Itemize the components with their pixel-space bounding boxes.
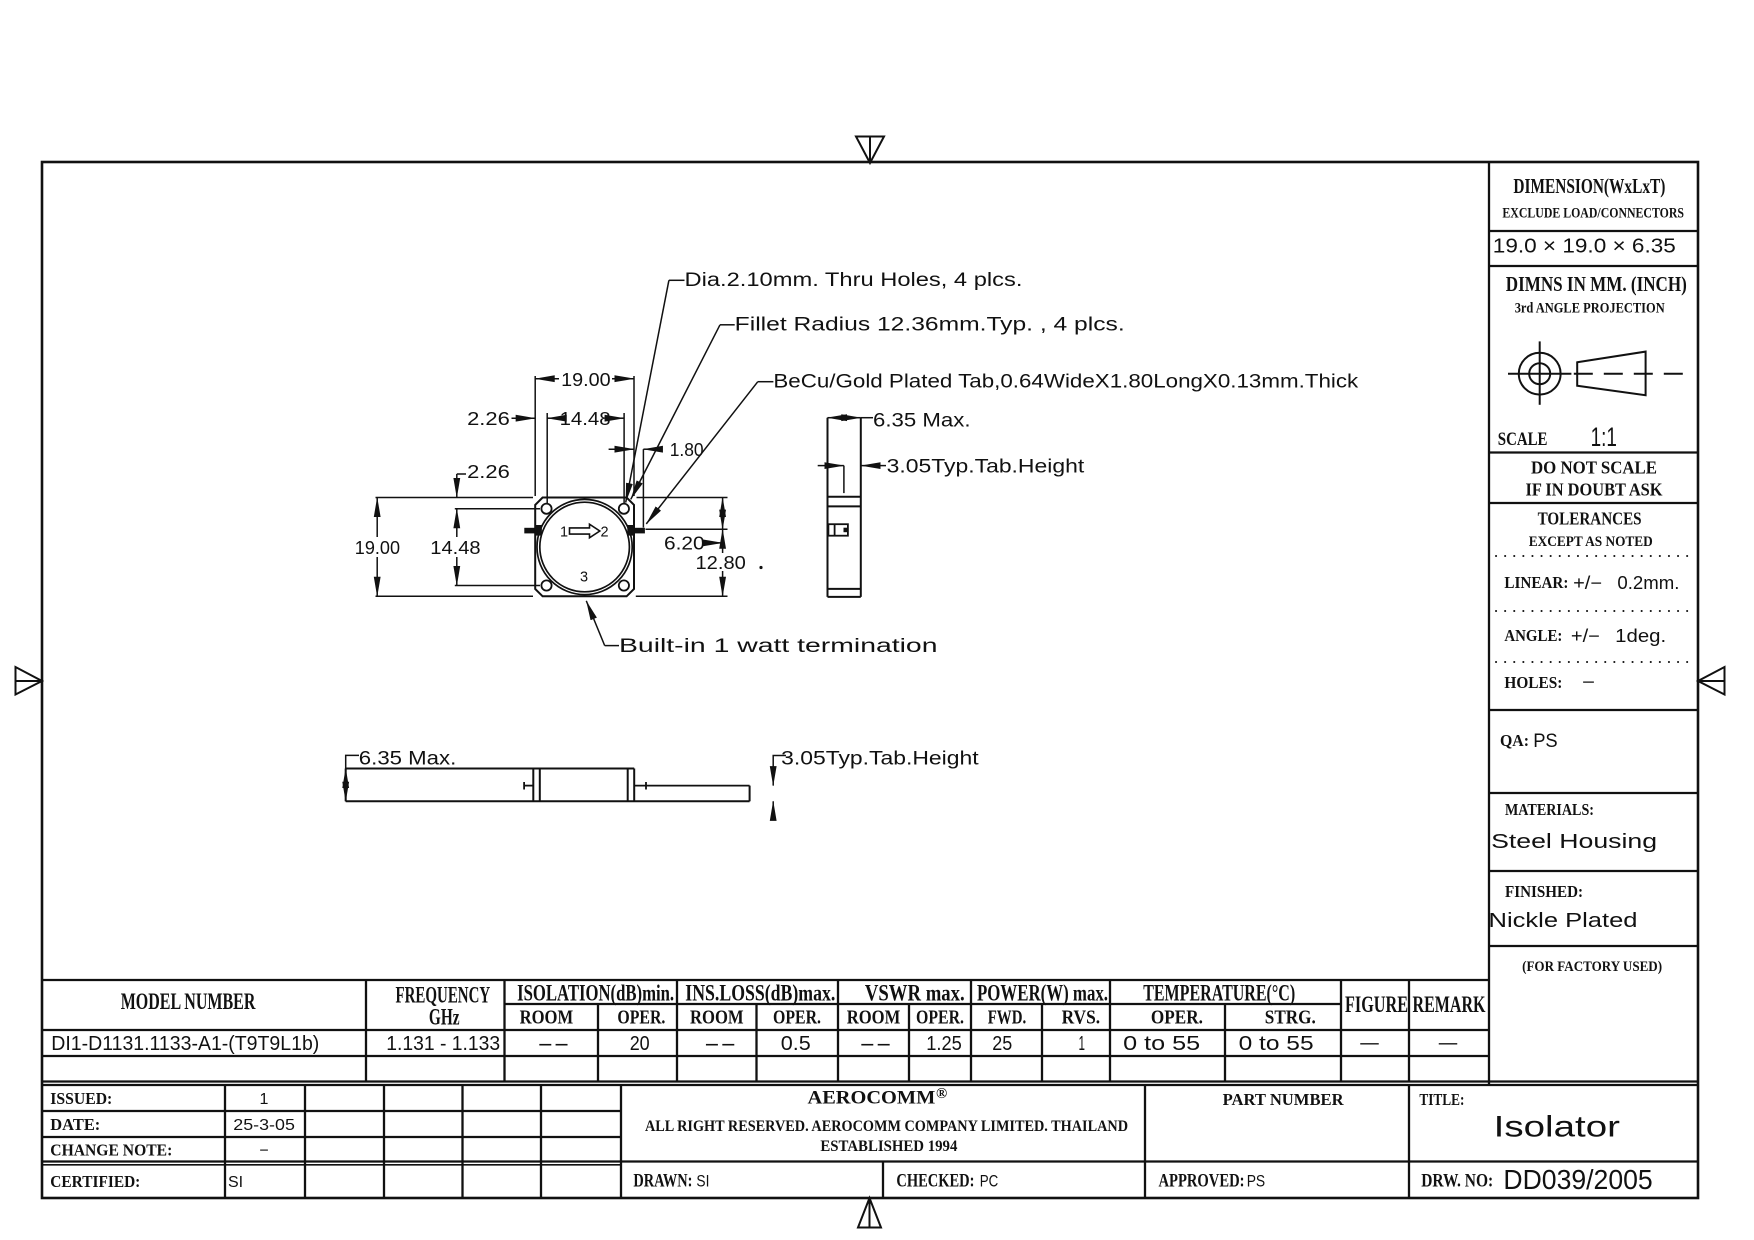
svg-text:19.00: 19.00 xyxy=(355,538,400,558)
svg-text:20: 20 xyxy=(630,1032,650,1055)
svg-text:OPER.: OPER. xyxy=(773,1008,821,1029)
svg-text:1: 1 xyxy=(1079,1032,1086,1055)
svg-text:1deg.: 1deg. xyxy=(1615,626,1666,646)
svg-text:—: — xyxy=(1360,1031,1379,1054)
svg-text:RVS.: RVS. xyxy=(1062,1008,1101,1029)
svg-text:SI: SI xyxy=(228,1174,243,1191)
svg-text:DIMENSION(WxLxT): DIMENSION(WxLxT) xyxy=(1513,174,1665,198)
svg-text:+/−: +/− xyxy=(1571,626,1600,646)
svg-text:19.0 × 19.0 × 6.35: 19.0 × 19.0 × 6.35 xyxy=(1493,236,1676,258)
svg-text:Steel Housing: Steel Housing xyxy=(1491,831,1657,853)
svg-text:OPER.: OPER. xyxy=(916,1008,964,1029)
svg-text:QA:: QA: xyxy=(1500,731,1529,750)
svg-text:Nickle Plated: Nickle Plated xyxy=(1489,910,1638,932)
svg-text:6.35 Max.: 6.35 Max. xyxy=(873,410,971,431)
svg-text:1.25: 1.25 xyxy=(926,1032,962,1055)
svg-text:TITLE:: TITLE: xyxy=(1419,1090,1464,1109)
svg-text:ROOM: ROOM xyxy=(690,1008,744,1029)
svg-text:Dia.2.10mm. Thru Holes, 4 plcs: Dia.2.10mm. Thru Holes, 4 plcs. xyxy=(685,270,1023,291)
svg-text:25: 25 xyxy=(992,1032,1012,1055)
svg-text:2.26: 2.26 xyxy=(467,462,510,482)
svg-text:(FOR FACTORY USED): (FOR FACTORY USED) xyxy=(1522,959,1662,975)
svg-text:12.80: 12.80 xyxy=(696,553,746,573)
svg-text:ISOLATION(dB)min.: ISOLATION(dB)min. xyxy=(517,981,674,1006)
svg-text:CHANGE NOTE:: CHANGE NOTE: xyxy=(50,1141,172,1160)
svg-text:Built-in 1 watt termination: Built-in 1 watt termination xyxy=(619,636,938,657)
svg-text:STRG.: STRG. xyxy=(1265,1008,1316,1029)
svg-text:0 to 55: 0 to 55 xyxy=(1239,1032,1314,1055)
svg-text:HOLES:: HOLES: xyxy=(1504,673,1562,692)
svg-text:PART NUMBER: PART NUMBER xyxy=(1223,1090,1345,1109)
svg-text:®: ® xyxy=(936,1086,947,1102)
svg-text:AEROCOMM: AEROCOMM xyxy=(808,1088,936,1109)
svg-text:DATE:: DATE: xyxy=(50,1115,100,1134)
svg-text:1:1: 1:1 xyxy=(1591,422,1617,452)
svg-text:PS: PS xyxy=(1533,731,1558,752)
svg-text:FIGURE: FIGURE xyxy=(1345,992,1408,1017)
svg-text:TOLERANCES: TOLERANCES xyxy=(1538,509,1642,529)
svg-text:TEMPERATURE(°C): TEMPERATURE(°C) xyxy=(1143,981,1295,1006)
svg-text:CHECKED:: CHECKED: xyxy=(896,1172,974,1192)
svg-text:−: − xyxy=(259,1143,268,1160)
svg-text:IF IN DOUBT ASK: IF IN DOUBT ASK xyxy=(1526,480,1663,500)
svg-text:SCALE: SCALE xyxy=(1498,429,1548,450)
svg-text:--: -- xyxy=(704,1032,737,1055)
svg-text:+/−: +/− xyxy=(1573,573,1602,593)
svg-text:3.05Typ.Tab.Height: 3.05Typ.Tab.Height xyxy=(781,749,979,770)
svg-text:1: 1 xyxy=(260,1091,269,1108)
svg-text:6.20: 6.20 xyxy=(664,534,705,554)
svg-text:0 to 55: 0 to 55 xyxy=(1123,1032,1200,1055)
svg-text:FINISHED:: FINISHED: xyxy=(1505,882,1583,901)
svg-text:ROOM: ROOM xyxy=(847,1008,901,1029)
svg-text:SI: SI xyxy=(696,1172,709,1191)
svg-text:APPROVED:: APPROVED: xyxy=(1159,1172,1245,1192)
svg-text:—: — xyxy=(1439,1031,1458,1054)
svg-text:--: -- xyxy=(537,1032,570,1055)
svg-text:14.48: 14.48 xyxy=(560,409,611,429)
svg-text:−: − xyxy=(1582,672,1595,692)
svg-text:1: 1 xyxy=(560,525,568,541)
svg-text:DI1-D1131.1133-A1-(T9T9L1b): DI1-D1131.1133-A1-(T9T9L1b) xyxy=(51,1032,319,1055)
svg-text:ESTABLISHED 1994: ESTABLISHED 1994 xyxy=(820,1138,957,1155)
svg-text:EXCEPT AS NOTED: EXCEPT AS NOTED xyxy=(1529,534,1653,550)
svg-text:GHz: GHz xyxy=(429,1005,460,1030)
svg-text:BeCu/Gold Plated Tab,0.64WideX: BeCu/Gold Plated Tab,0.64WideX1.80LongX0… xyxy=(773,372,1358,393)
svg-text:DD039/2005: DD039/2005 xyxy=(1503,1164,1652,1195)
svg-text:FWD.: FWD. xyxy=(988,1008,1027,1029)
svg-text:ANGLE:: ANGLE: xyxy=(1504,626,1562,645)
svg-text:3.05Typ.Tab.Height: 3.05Typ.Tab.Height xyxy=(887,457,1085,478)
svg-text:EXCLUDE LOAD/CONNECTORS: EXCLUDE LOAD/CONNECTORS xyxy=(1502,206,1684,222)
svg-text:Fillet Radius 12.36mm.Typ. , 4: Fillet Radius 12.36mm.Typ. , 4 plcs. xyxy=(735,315,1125,336)
svg-text:25-3-05: 25-3-05 xyxy=(233,1117,295,1134)
svg-text:ROOM: ROOM xyxy=(520,1008,574,1029)
svg-text:CERTIFIED:: CERTIFIED: xyxy=(50,1172,140,1191)
svg-text:19.00: 19.00 xyxy=(561,370,611,390)
svg-text:0.2mm.: 0.2mm. xyxy=(1617,573,1679,593)
svg-text:DRW. NO:: DRW. NO: xyxy=(1421,1172,1493,1192)
svg-text:OPER.: OPER. xyxy=(617,1008,665,1029)
svg-text:LINEAR:: LINEAR: xyxy=(1504,573,1568,592)
svg-text:OPER.: OPER. xyxy=(1151,1008,1203,1029)
svg-text:6.35 Max.: 6.35 Max. xyxy=(359,749,457,770)
svg-text:1.80: 1.80 xyxy=(670,440,704,460)
svg-text:2.26: 2.26 xyxy=(467,409,510,429)
svg-text:VSWR max.: VSWR max. xyxy=(865,981,965,1006)
svg-text:--: -- xyxy=(859,1032,892,1055)
svg-text:DO NOT SCALE: DO NOT SCALE xyxy=(1531,458,1657,478)
svg-text:3rd ANGLE PROJECTION: 3rd ANGLE PROJECTION xyxy=(1515,301,1665,317)
svg-text:ALL RIGHT RESERVED. AEROCOM: ALL RIGHT RESERVED. AEROCOMM COMPANY LIM… xyxy=(645,1118,1128,1135)
svg-text:REMARK: REMARK xyxy=(1413,992,1486,1017)
svg-text:14.48: 14.48 xyxy=(430,538,480,558)
svg-text:MATERIALS:: MATERIALS: xyxy=(1505,800,1594,819)
svg-text:POWER(W) max.: POWER(W) max. xyxy=(977,981,1108,1006)
svg-text:3: 3 xyxy=(580,570,588,586)
svg-text:1.131 - 1.133: 1.131 - 1.133 xyxy=(386,1032,500,1055)
svg-text:2: 2 xyxy=(601,525,609,541)
svg-text:INS.LOSS(dB)max.: INS.LOSS(dB)max. xyxy=(685,981,835,1006)
svg-text:PC: PC xyxy=(980,1172,999,1191)
svg-text:0.5: 0.5 xyxy=(781,1032,811,1055)
svg-text:ISSUED:: ISSUED: xyxy=(50,1089,112,1108)
svg-text:DRAWN:: DRAWN: xyxy=(633,1172,692,1192)
svg-text:PS: PS xyxy=(1247,1172,1266,1191)
svg-text:DIMNS IN MM. (INCH): DIMNS IN MM. (INCH) xyxy=(1506,272,1687,296)
svg-text:MODEL NUMBER: MODEL NUMBER xyxy=(121,989,256,1014)
svg-text:Isolator: Isolator xyxy=(1494,1111,1620,1144)
